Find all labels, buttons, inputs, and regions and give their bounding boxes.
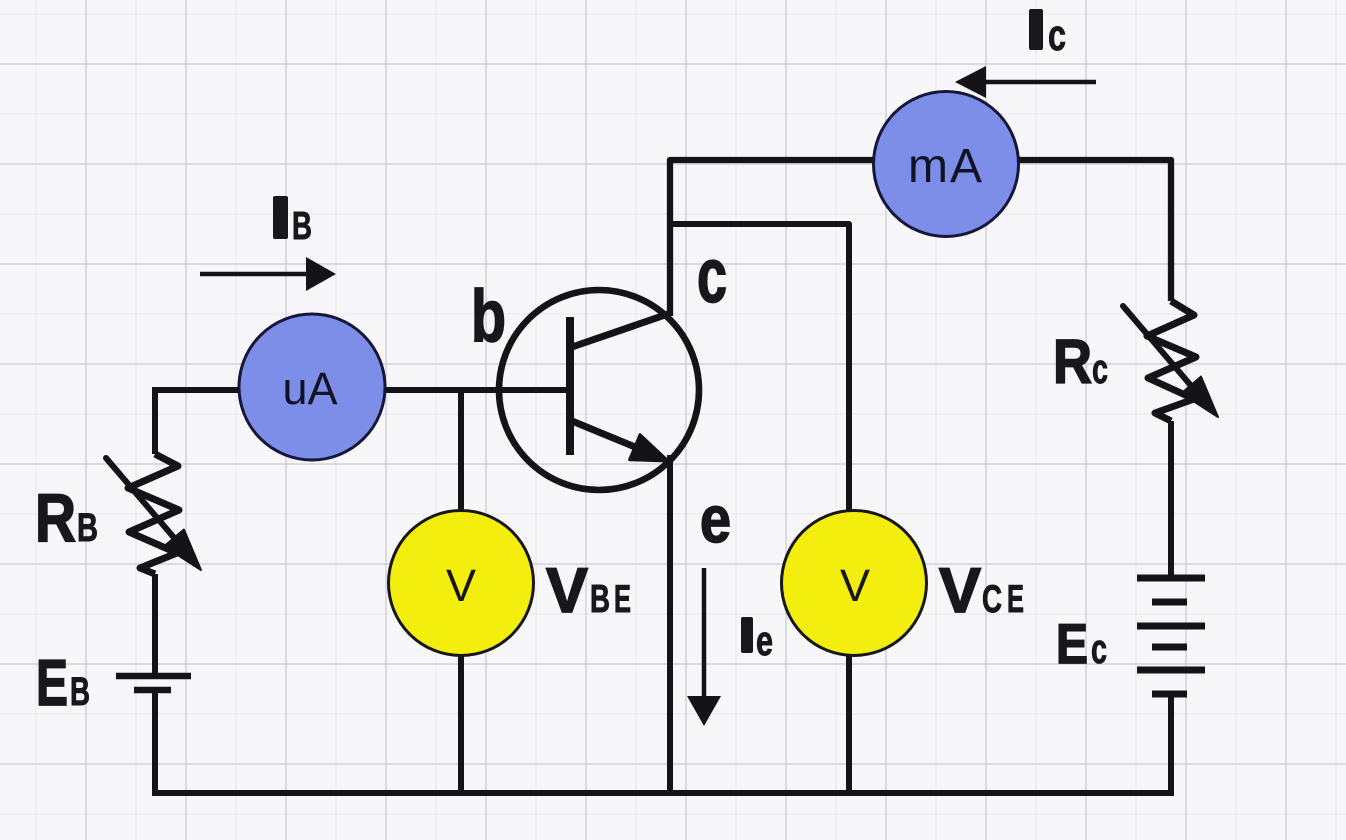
svg-text:V: V xyxy=(939,556,981,626)
svg-text:E: E xyxy=(1056,612,1088,675)
svg-text:e: e xyxy=(756,617,773,664)
svg-text:E: E xyxy=(36,646,68,719)
svg-text:e: e xyxy=(700,482,731,556)
svg-text:c: c xyxy=(1091,625,1107,672)
svg-text:B: B xyxy=(590,578,610,621)
svg-text:C: C xyxy=(982,578,1002,621)
svg-text:B: B xyxy=(77,506,98,550)
svg-text:b: b xyxy=(471,276,506,357)
svg-text:uA: uA xyxy=(282,363,337,414)
svg-text:c: c xyxy=(697,233,727,319)
svg-text:E: E xyxy=(1007,578,1024,621)
svg-text:V: V xyxy=(446,560,476,611)
svg-text:B: B xyxy=(70,670,90,714)
svg-text:V: V xyxy=(546,556,588,626)
svg-text:R: R xyxy=(1053,328,1092,397)
svg-text:V: V xyxy=(840,560,870,611)
svg-text:B: B xyxy=(292,205,312,248)
svg-text:E: E xyxy=(614,578,631,621)
svg-text:R: R xyxy=(35,480,76,556)
svg-text:c: c xyxy=(1048,11,1066,60)
svg-text:mA: mA xyxy=(908,140,984,193)
svg-text:c: c xyxy=(1092,345,1108,392)
